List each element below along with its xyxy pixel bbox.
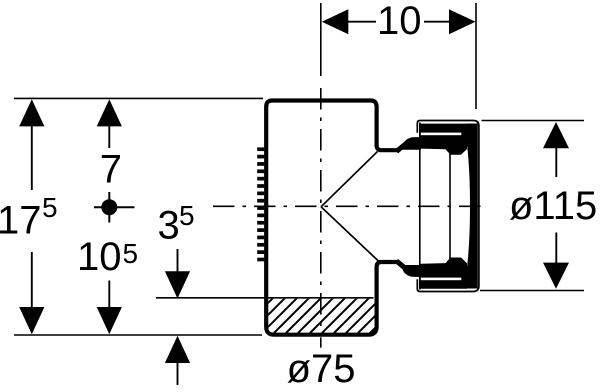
svg-text:ø75: ø75 xyxy=(287,347,356,391)
svg-text:17: 17 xyxy=(0,199,42,243)
svg-text:5: 5 xyxy=(123,238,139,269)
svg-text:5: 5 xyxy=(179,200,195,231)
svg-text:10: 10 xyxy=(77,235,122,279)
svg-text:ø115: ø115 xyxy=(509,184,597,228)
svg-text:3: 3 xyxy=(158,204,180,248)
svg-text:7: 7 xyxy=(100,148,122,192)
svg-text:10: 10 xyxy=(377,0,422,43)
svg-text:5: 5 xyxy=(42,192,58,223)
